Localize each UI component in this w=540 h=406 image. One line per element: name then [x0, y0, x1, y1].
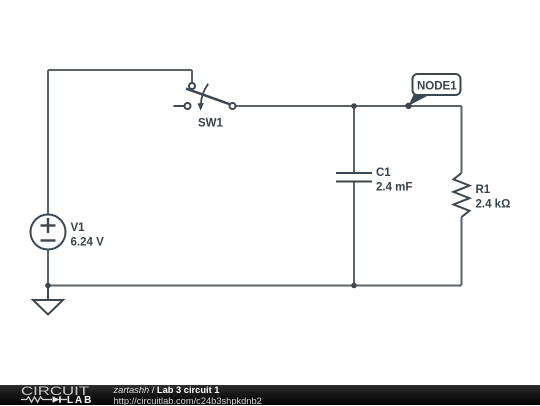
SW1 pin 3 terminal (common, to load)	[230, 103, 236, 109]
footer bar	[0, 385, 540, 405]
svg-text:NODE1: NODE1	[417, 81, 457, 93]
C1 bottom plate	[336, 181, 372, 183]
resistor R1	[454, 173, 470, 217]
SW1 blade	[186, 89, 230, 105]
SW1 actuation arrow arc	[201, 84, 208, 105]
svg-text:2.4 kΩ: 2.4 kΩ	[476, 199, 511, 211]
node dot: capacitor bottom junction	[351, 283, 357, 289]
node dot: ground junction	[45, 283, 51, 289]
SW1 pin 2 terminal (open throw)	[185, 103, 191, 109]
voltage source V1	[31, 215, 66, 250]
ground	[33, 286, 63, 315]
svg-text:LAB: LAB	[67, 395, 93, 405]
svg-text:2.4 mF: 2.4 mF	[376, 182, 412, 194]
wire: V1 bottom to ground junction	[47, 250, 49, 286]
C1 top plate	[336, 172, 372, 174]
wire: capacitor top connection	[353, 106, 355, 172]
logo diode	[53, 396, 60, 402]
wire: top-right horizontal from switch to right corner	[236, 105, 462, 107]
wire: SW1 open-throw stub	[174, 105, 185, 107]
svg-text:C1: C1	[376, 167, 391, 179]
ground triangle	[33, 300, 63, 315]
SW1 pin 1 terminal (top, to source)	[189, 83, 195, 89]
V1 plus sign	[41, 224, 56, 226]
wire: capacitor bottom connection	[353, 183, 355, 286]
NODE1 flag box	[413, 74, 461, 95]
ground stem	[47, 286, 49, 301]
NODE1 flag pointer tail	[409, 94, 431, 106]
node dot: NODE1 pointer	[405, 103, 411, 109]
switch SW1	[174, 83, 236, 109]
wire: left vertical from top corner down to V1 top	[47, 70, 49, 215]
wire: right vertical from R1 bottom to bottom corner	[461, 217, 463, 286]
svg-text:6.24 V: 6.24 V	[71, 237, 105, 249]
CircuitLab logo	[0, 385, 110, 405]
node dot: top junction at capacitor	[351, 103, 357, 109]
wire: top-left horizontal from V1 column to switch	[48, 69, 192, 71]
V1 minus sign	[41, 239, 56, 241]
logo resistor squiggle	[21, 397, 52, 402]
wire: bottom horizontal	[48, 285, 462, 287]
svg-text:R1: R1	[476, 184, 491, 196]
svg-text:V1: V1	[71, 222, 86, 234]
svg-text:SW1: SW1	[198, 118, 224, 130]
wire: switch top stub	[191, 70, 193, 83]
capacitor C1	[336, 173, 372, 182]
wire: right vertical from top corner down to R1 top	[461, 106, 463, 173]
SW1 actuation arrowhead	[198, 103, 204, 111]
